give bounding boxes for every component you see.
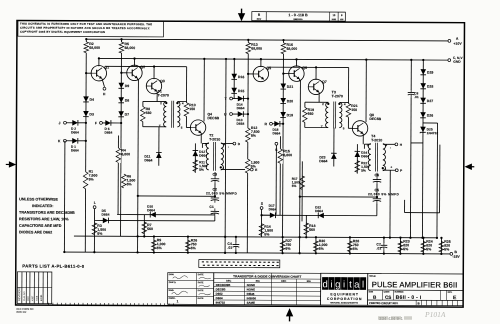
svg-text:D664: D664 xyxy=(237,106,245,110)
svg-text:150: 150 xyxy=(189,107,195,111)
resistor R19 560 xyxy=(302,107,307,122)
centerline arrow left xyxy=(6,162,15,167)
svg-text:CS: CS xyxy=(385,295,391,300)
wire column x=138.7 xyxy=(299,80,302,253)
terminal D xyxy=(221,142,233,144)
diode D11 D664 xyxy=(158,127,160,166)
svg-text:D664: D664 xyxy=(144,158,152,162)
svg-text:Q7: Q7 xyxy=(322,80,327,84)
svg-text:D28: D28 xyxy=(427,85,433,89)
resistor R23 820 xyxy=(399,238,401,254)
terminal B -15V xyxy=(450,253,453,256)
svg-text:.01: .01 xyxy=(227,246,232,250)
svg-text:J: J xyxy=(59,121,61,125)
top revision stamp box xyxy=(252,12,346,21)
svg-text:CIRCUITS ARE PROPRIETARY IN NA: CIRCUITS ARE PROPRIETARY IN NATURE AND S… xyxy=(20,26,150,31)
svg-text:D664: D664 xyxy=(315,209,323,213)
resistor R4 6,800 xyxy=(116,148,121,163)
resistor R6 1,500 xyxy=(121,174,126,189)
resistor R1 7,500 xyxy=(83,172,88,189)
resistor R15 6,800 xyxy=(278,149,283,164)
svg-text:5%: 5% xyxy=(319,247,325,251)
collector wire Q8 xyxy=(365,60,367,122)
bus wire y=214 xyxy=(262,214,377,217)
diode D16 xyxy=(231,74,237,80)
svg-text:l: l xyxy=(362,279,364,290)
centerline arrow bottom xyxy=(287,310,292,322)
svg-text:CHK'D.: CHK'D. xyxy=(169,282,177,284)
svg-text:d: d xyxy=(322,279,327,290)
svg-text:T-2070: T-2070 xyxy=(158,93,169,97)
emitter wire Q4 xyxy=(200,133,202,143)
diode D20 xyxy=(280,98,286,104)
svg-text:1 - 0 -118 B: 1 - 0 -118 B xyxy=(288,13,308,17)
svg-text:560: 560 xyxy=(147,227,153,231)
resistor R14 body xyxy=(259,224,264,236)
diode D7 xyxy=(118,111,124,117)
collector bus wire Q7 xyxy=(267,66,349,68)
svg-text:4087: 4087 xyxy=(31,295,34,301)
svg-text:D26: D26 xyxy=(427,114,433,118)
svg-text:+: + xyxy=(390,165,392,169)
diode D13 D664 xyxy=(232,113,238,115)
svg-text:7046: 7046 xyxy=(36,295,39,301)
svg-text:D664: D664 xyxy=(71,130,79,134)
capacitor C7 .01 xyxy=(383,238,385,243)
resistor R25 820 xyxy=(440,238,442,254)
zener diode D25 1N4732 xyxy=(420,127,426,133)
svg-text:PARTS LIST A-PL-B611-0-0: PARTS LIST A-PL-B611-0-0 xyxy=(22,264,84,269)
collector wire Q6 xyxy=(295,59,297,66)
diode D12 D664 xyxy=(194,143,196,172)
svg-text:560: 560 xyxy=(308,112,314,116)
svg-text:D8: D8 xyxy=(125,99,130,103)
svg-text:5%: 5% xyxy=(89,177,95,181)
svg-text:5%: 5% xyxy=(251,134,257,138)
svg-text:560: 560 xyxy=(146,111,152,115)
svg-text:D664: D664 xyxy=(319,159,327,163)
svg-text:D4: D4 xyxy=(90,98,95,102)
svg-text:T-2010: T-2010 xyxy=(209,138,220,142)
terminal K xyxy=(64,139,67,142)
svg-text:DEC6B: DEC6B xyxy=(207,116,219,120)
transformer T1 windings xyxy=(164,102,167,127)
transistor Q3 xyxy=(146,78,161,93)
svg-text:5%: 5% xyxy=(251,165,257,169)
svg-text:DEC: DEC xyxy=(281,280,286,283)
svg-text:62081: 62081 xyxy=(40,294,43,301)
svg-text:560: 560 xyxy=(309,228,315,232)
terminal E xyxy=(221,168,251,170)
svg-text:DRN.: DRN. xyxy=(169,274,175,276)
diode D3 xyxy=(83,111,89,117)
resistor R10 150 xyxy=(177,101,186,103)
svg-text:PROD.: PROD. xyxy=(169,298,176,300)
diode D29 xyxy=(420,69,426,75)
bottom ruler tick marks xyxy=(49,303,174,306)
mid bus wire xyxy=(74,236,437,238)
diode D24 D664 xyxy=(356,144,358,173)
svg-text:GND: GND xyxy=(453,60,461,64)
svg-text:D9: D9 xyxy=(125,84,130,88)
svg-text:C1: C1 xyxy=(209,205,214,209)
svg-text:CAPACITORS ARE MFD: CAPACITORS ARE MFD xyxy=(19,224,62,228)
svg-text:+10V: +10V xyxy=(453,42,462,46)
wire column 2a xyxy=(247,40,248,253)
printed circuit rev row xyxy=(368,299,463,301)
terminal C,N,V GND xyxy=(448,59,451,62)
svg-text:D27: D27 xyxy=(427,99,433,103)
wire column D15 D16 xyxy=(233,59,235,98)
svg-text:t: t xyxy=(349,279,352,290)
svg-text:D16: D16 xyxy=(238,75,244,79)
svg-text:D664: D664 xyxy=(104,131,112,135)
junction wire cap column xyxy=(214,183,216,195)
diode D2 D664 xyxy=(66,122,72,124)
diode D18 D664 xyxy=(272,123,274,125)
svg-text:EIA: EIA xyxy=(307,280,311,283)
svg-text:5%: 5% xyxy=(353,247,359,251)
wire column 2b xyxy=(282,40,285,237)
transistor Q4 DEC6B xyxy=(190,120,205,135)
resistor 1,500 stage 2 xyxy=(245,159,250,173)
svg-text:D664: D664 xyxy=(272,131,280,135)
resistor R12 7,500 xyxy=(245,128,250,142)
wire cap column xyxy=(376,204,378,216)
diode D14 D664 xyxy=(233,98,239,100)
svg-text:5%: 5% xyxy=(157,246,163,250)
diode D22 D664 on bus xyxy=(318,213,324,219)
svg-text:.01: .01 xyxy=(376,246,381,250)
wire column x=119 xyxy=(117,135,119,214)
transistor Q7 xyxy=(308,79,323,94)
svg-text:INDICATED:: INDICATED: xyxy=(32,204,53,208)
diode D10 D664 on bus xyxy=(150,212,156,218)
svg-text:a: a xyxy=(354,279,360,290)
wire D25 to bus xyxy=(421,132,424,237)
svg-text:6,800: 6,800 xyxy=(121,152,130,156)
svg-text:D7: D7 xyxy=(125,113,130,117)
diode D4 xyxy=(83,96,89,102)
svg-text:THIS SCHEMATIC IS FURNISHED ON: THIS SCHEMATIC IS FURNISHED ONLY FOR TES… xyxy=(20,22,152,27)
diode D23 D664 xyxy=(333,128,335,167)
ground rail wire xyxy=(99,58,449,60)
svg-text:TRANSISTORS ARE DEC3639B: TRANSISTORS ARE DEC3639B xyxy=(19,211,75,215)
resistor R22 1,500 xyxy=(355,161,360,173)
diode D15 xyxy=(231,88,237,94)
wire T2 primary top xyxy=(202,142,208,144)
diode D9 xyxy=(118,83,124,89)
emitter wire Q3 xyxy=(156,91,158,101)
svg-text:DATE: DATE xyxy=(198,297,204,300)
diode D27 xyxy=(420,98,426,104)
resistor R26 750 xyxy=(187,237,189,253)
svg-text:68,000: 68,000 xyxy=(89,46,100,50)
svg-text:D664: D664 xyxy=(147,208,155,212)
svg-text:D19: D19 xyxy=(287,113,293,117)
transistor Q5 xyxy=(253,66,268,81)
svg-text:.01: .01 xyxy=(414,95,419,99)
svg-text:DIODES ARE D662: DIODES ARE D662 xyxy=(19,230,52,234)
dashed strip box xyxy=(199,260,280,268)
bus wire y=214 xyxy=(117,213,215,215)
resistor R2 68,000 xyxy=(84,42,89,53)
terminal T xyxy=(230,97,233,100)
signature block xyxy=(168,273,214,305)
svg-text:MAYNARD. MASSACHUSETTS: MAYNARD. MASSACHUSETTS xyxy=(330,301,358,304)
svg-text:D664: D664 xyxy=(236,122,244,126)
resistor R11 1,500 xyxy=(193,160,198,172)
base wire Q4 xyxy=(185,116,187,127)
svg-text:D20: D20 xyxy=(287,99,293,103)
wire right L-network xyxy=(439,145,441,213)
resistor R28 750 xyxy=(349,237,351,253)
svg-text:-15V: -15V xyxy=(452,255,460,259)
svg-text:RESISTORS ARE 1/4W, 10%: RESISTORS ARE 1/4W, 10% xyxy=(19,217,69,221)
svg-text:g: g xyxy=(335,279,340,290)
terminal S xyxy=(260,207,263,210)
svg-text:DATE: DATE xyxy=(198,273,204,276)
svg-text:5%: 5% xyxy=(361,169,366,173)
title block PULSE AMPLIFIER B611 xyxy=(368,274,464,306)
svg-text:5%: 5% xyxy=(97,232,103,236)
svg-text:NUMBER: NUMBER xyxy=(395,292,404,294)
base wire Q8 xyxy=(347,117,349,128)
diode D21 xyxy=(280,83,286,89)
wire column x=138.7 xyxy=(137,79,140,252)
centerline arrow right xyxy=(466,164,474,169)
svg-text:Q2: Q2 xyxy=(140,65,145,69)
svg-text:5%: 5% xyxy=(444,247,450,251)
svg-text:CHG NO: CHG NO xyxy=(23,291,26,301)
svg-text:334 434 9-1: 334 434 9-1 xyxy=(379,316,404,321)
svg-text:REV.: REV. xyxy=(448,292,453,294)
capacitor C8 .01 xyxy=(410,60,412,90)
diode D17 D664 xyxy=(262,214,271,216)
svg-text:5%: 5% xyxy=(426,247,432,251)
resistor R13 68,000 xyxy=(246,43,251,54)
collector wire Q2 xyxy=(133,59,135,66)
diode D1 D664 xyxy=(66,140,72,142)
svg-text:EIA: EIA xyxy=(256,280,260,283)
collector wire Q4 xyxy=(203,59,205,121)
resistor R17 1,500 xyxy=(301,161,303,221)
svg-text:68,000: 68,000 xyxy=(251,47,262,51)
collector bus wire Q3 xyxy=(105,65,187,67)
emitter wire Q8 xyxy=(362,134,364,144)
disclaimer note box xyxy=(18,21,164,37)
diode chain column D29-D25 xyxy=(422,60,424,133)
terminal J xyxy=(64,121,67,124)
svg-text:6,800: 6,800 xyxy=(283,153,292,157)
svg-text:D664: D664 xyxy=(71,148,79,152)
wire L column xyxy=(93,209,95,253)
digital logo block xyxy=(321,273,368,305)
svg-text:D29: D29 xyxy=(427,71,433,75)
svg-text:IN4732: IN4732 xyxy=(216,301,226,305)
diode D28 xyxy=(420,83,426,89)
svg-text:5%: 5% xyxy=(127,182,133,186)
centerline arrow top xyxy=(239,9,244,20)
svg-text:150: 150 xyxy=(351,108,357,112)
svg-text:PULSE AMPLIFIER B6II: PULSE AMPLIFIER B6II xyxy=(372,280,458,289)
terminal R xyxy=(270,122,273,125)
svg-text:68,000: 68,000 xyxy=(286,47,297,51)
svg-text:5%: 5% xyxy=(292,184,297,188)
resistor R30 1,000 xyxy=(315,237,317,253)
diode D5 D664 xyxy=(95,219,104,221)
wire T2 secondary column xyxy=(224,59,227,253)
svg-text:DATE: DATE xyxy=(198,289,204,292)
svg-text:COPYRIGHT 1965 BY DIGITAL EQUI: COPYRIGHT 1965 BY DIGITAL EQUIPMENT CORP… xyxy=(20,30,105,34)
junction wire cap column xyxy=(376,184,378,196)
wire C8 to diode chain xyxy=(411,142,423,144)
svg-text:REVISIONS: REVISIONS xyxy=(17,287,21,301)
resistor R9 1,000 xyxy=(153,236,155,252)
svg-text:T: T xyxy=(321,125,323,129)
wire column 1b xyxy=(120,39,123,236)
svg-text:TITLE: TITLE xyxy=(369,276,376,278)
svg-text:TRANSISTOR & DIODE CONVERSION: TRANSISTOR & DIODE CONVERSION CHART xyxy=(233,274,301,278)
resistor R3 body xyxy=(92,223,97,235)
transistor Q2 xyxy=(127,65,142,80)
wire column 1a xyxy=(85,39,86,252)
+10V rail wire xyxy=(86,39,449,41)
svg-text:REV: REV xyxy=(27,296,30,301)
svg-text:i: i xyxy=(343,279,345,290)
svg-text:PRINTED CIRCUIT REV.: PRINTED CIRCUIT REV. xyxy=(369,301,398,305)
svg-text:5%: 5% xyxy=(199,168,204,172)
wire input column xyxy=(63,141,66,252)
sheet border frame xyxy=(16,21,465,308)
diode D26 xyxy=(420,112,426,118)
svg-text:SIZE: SIZE xyxy=(369,291,374,293)
svg-text:BRB 102: BRB 102 xyxy=(17,311,28,314)
svg-text:D21: D21 xyxy=(287,85,293,89)
wire stage2 vertical x=391 xyxy=(389,170,391,237)
svg-text:Q6: Q6 xyxy=(302,66,307,70)
svg-text:D664: D664 xyxy=(102,213,110,217)
resistor R16 68,000 xyxy=(281,43,286,54)
svg-text:68,000: 68,000 xyxy=(124,46,135,50)
svg-text:ENG.: ENG. xyxy=(169,290,175,292)
svg-text:5%: 5% xyxy=(191,246,197,250)
svg-text:Q3: Q3 xyxy=(160,79,165,83)
svg-text:T-2070: T-2070 xyxy=(332,94,343,98)
svg-text:UNLESS OTHERWISE: UNLESS OTHERWISE xyxy=(19,197,58,201)
svg-text:DATE: DATE xyxy=(198,281,204,284)
svg-text:1: 1 xyxy=(177,299,179,303)
terminal S wire column xyxy=(275,142,278,145)
resistor R18 560 xyxy=(305,215,307,237)
wire S column xyxy=(260,209,262,237)
wire T4 primary top xyxy=(364,143,370,145)
resistor R8 560 xyxy=(140,107,145,122)
svg-text:E Q U I P M E N T: E Q U I P M E N T xyxy=(330,292,359,296)
svg-text:C O R P O R A T I O N: C O R P O R A T I O N xyxy=(327,297,362,301)
transformer T3 windings xyxy=(326,102,329,127)
svg-text:DEC6B: DEC6B xyxy=(369,117,381,121)
svg-text:P101A: P101A xyxy=(424,310,446,319)
transistor Q1 xyxy=(91,65,106,80)
transistor and diode conversion chart xyxy=(214,273,321,305)
resistor R5 68,000 xyxy=(119,42,124,53)
revision table xyxy=(17,272,52,304)
resistor R7 560 xyxy=(143,215,145,237)
number row xyxy=(368,289,463,291)
mid horizontal wire y=195 xyxy=(138,195,215,197)
resistor R27 750 xyxy=(282,237,284,253)
transistor Q6 xyxy=(289,66,304,81)
transistor Q8 DEC6B xyxy=(352,121,367,136)
resistor R24 820 xyxy=(422,238,424,254)
collector wire Q5 xyxy=(260,59,262,67)
terminal H xyxy=(383,143,395,145)
svg-text:REV: REV xyxy=(257,19,262,21)
wire column x=119 xyxy=(279,136,281,215)
svg-text:22,000 5% MMFD: 22,000 5% MMFD xyxy=(206,191,238,195)
resistor R21 150 xyxy=(339,101,348,103)
collector wire Q1 xyxy=(98,58,100,66)
svg-text:SB8111A: SB8111A xyxy=(293,18,303,21)
svg-text:5%: 5% xyxy=(264,233,270,237)
svg-text:D3: D3 xyxy=(89,112,94,116)
terminal A +10V xyxy=(448,40,451,43)
svg-text:CODE: CODE xyxy=(384,291,390,293)
svg-text:SAME: SAME xyxy=(247,301,255,305)
diode D19 xyxy=(280,112,286,118)
wire box right of D25 xyxy=(423,122,437,124)
svg-text:22,000 5% MMFD: 22,000 5% MMFD xyxy=(368,192,400,196)
terminal F xyxy=(100,122,103,125)
terminal U xyxy=(230,113,233,116)
signature squiggles xyxy=(173,276,188,279)
mid horizontal wire y=195 xyxy=(300,196,377,198)
capacitor C4 .01 xyxy=(235,237,237,242)
emitter wire Q7 xyxy=(318,92,320,102)
svg-text:T-2010: T-2010 xyxy=(371,138,382,142)
terminal P xyxy=(383,169,396,171)
svg-text:1N4732: 1N4732 xyxy=(427,131,439,135)
diode D8 xyxy=(118,97,124,103)
svg-text:D664: D664 xyxy=(269,207,277,211)
terminal L xyxy=(93,206,96,209)
svg-text:i: i xyxy=(330,279,332,290)
svg-text:5%: 5% xyxy=(403,247,409,251)
svg-text:D15: D15 xyxy=(238,89,244,93)
-15V bottom rail wire xyxy=(64,252,451,254)
diode D6 D664 xyxy=(102,122,105,124)
emitter terminal M xyxy=(102,79,105,87)
